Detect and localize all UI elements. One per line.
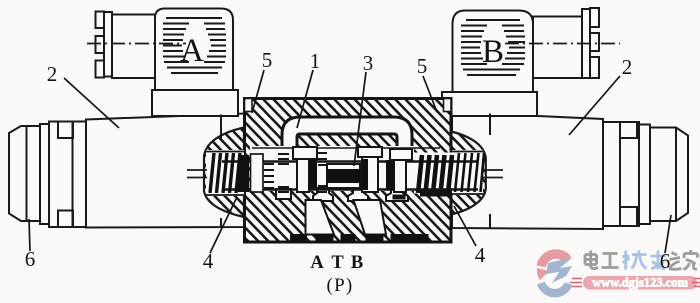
clamp bar A [104,12,112,77]
nut slot bottom left [58,211,73,228]
corner notch top-left [245,99,253,112]
valve body block (part 1) [245,99,452,243]
cable centerline A [87,43,186,45]
coil winding hatch B [461,20,525,75]
left stripe band [278,154,289,192]
port channel A [306,200,335,235]
right spring cover bulge (part 5) [451,132,486,215]
right seat under-bar [420,191,452,197]
left seat block [238,155,249,192]
port land tab 1 [313,188,333,201]
collar line left [72,122,74,228]
svg-text:4: 4 [475,243,486,267]
clamp tab middle A [96,36,105,53]
spring window lines left [206,152,246,196]
svg-text:2: 2 [47,62,58,86]
connector box B [453,11,534,93]
retaining nut right [603,122,639,226]
spring right (part 4) [455,153,484,192]
groove column 1 [318,153,327,192]
svg-text:5: 5 [417,54,428,78]
end cap (part 6) right [650,128,688,222]
port land tab 3 dark insert [393,195,406,200]
end cap (part 6) left [9,126,40,221]
svg-text:4: 4 [203,249,214,273]
leader 6 left [29,219,30,251]
end cap inner line left [26,126,28,221]
svg-text:(P): (P) [326,275,353,296]
tube end line left [220,115,222,228]
clamp tab bottom B [590,57,599,78]
nut slot top right [620,122,637,138]
left seat housing [251,154,264,192]
leader 4 left [210,199,236,253]
cable gland A [112,15,155,79]
port channel T/B funnel [354,200,387,235]
clamp bar B [582,9,590,78]
leader 5 left [252,70,264,113]
watermark chinese text [585,251,619,269]
svg-text:T: T [331,253,344,273]
leader 4 right [454,206,476,246]
svg-text:www.dgjs123.com: www.dgjs123.com [592,276,688,290]
ring right [639,125,650,225]
watermark url pill [583,276,697,290]
cable centerline B [505,43,620,45]
leader 5 right [423,76,437,112]
left washer stack [264,164,274,188]
leader 1 [297,70,313,128]
clamp tab top A [96,12,105,29]
port land tab 2 [348,188,368,201]
tube end line right [489,114,491,229]
armature pin right [483,170,503,178]
svg-text:B: B [482,34,504,70]
internal arch channel (white) [282,117,412,152]
svg-text:3: 3 [363,51,374,75]
port land tab 0 [276,189,291,199]
spool land 1 [293,147,317,192]
nut slot top left [58,122,73,139]
retaining nut left [49,122,86,228]
end cap inner line right [675,128,677,222]
spring window lines right [452,152,484,195]
svg-text:5: 5 [262,48,273,72]
corner notch top-right [444,99,452,112]
svg-text:1: 1 [310,49,321,73]
svg-text:A: A [310,253,324,273]
spring left (part 4) [210,153,240,193]
svg-text:A: A [180,33,204,69]
spool land 3 [386,149,412,192]
leader 2 left [64,78,119,128]
connector box A [155,9,233,91]
nut slot bottom right [620,207,637,226]
spool centre rod [327,164,360,188]
coil winding hatch A [163,18,226,73]
bottom port strip [290,234,429,243]
collar line right [619,122,621,226]
watermark logo [541,254,567,266]
port land tab 3 [386,188,408,201]
armature pin left [187,170,207,178]
left spring cover bulge (part 5) [204,128,244,218]
spring seat bars right [418,155,452,193]
bore rails [222,148,478,190]
ring left [40,124,49,224]
bore band right white [414,153,452,194]
solenoid tube body right [452,112,603,229]
clamp tab top B [590,8,599,27]
pedestal B [442,92,537,116]
pedestal A [152,90,238,116]
cable gland B [533,17,582,79]
clamp tab middle B [590,33,599,51]
spool chamber window [250,146,414,191]
svg-text:2: 2 [622,55,633,79]
leader 3 [354,72,366,166]
right spring window [452,150,483,195]
svg-text:B: B [351,253,363,273]
leader 6 right [665,215,671,253]
port letters A T B [310,253,363,296]
solenoid tube body left [86,114,245,228]
clamp tab bottom A [96,61,105,78]
leader 2 right [569,76,620,135]
left spring window [206,150,244,196]
spool land 2 [358,147,382,192]
